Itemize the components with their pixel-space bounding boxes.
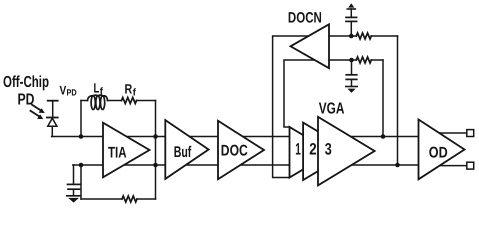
capacitor C3 bottom DOCN filter (346, 75, 357, 80)
capacitor C1 at TIA input (68, 184, 81, 189)
svg-text:2: 2 (309, 141, 316, 159)
wire capacitor C1 to ground (73, 189, 75, 195)
svg-text:Off-Chip: Off-Chip (3, 74, 49, 91)
photodiode D1 (47, 118, 58, 127)
svg-text:DOC: DOC (221, 142, 248, 159)
wire capacitor C3 to ground (351, 79, 353, 86)
op-amp Buf (165, 120, 208, 179)
op-amp VGA stage 2 (303, 123, 351, 180)
junction TIA output bottom (153, 163, 158, 168)
wire DOCN output top to outer loop (273, 36, 316, 178)
output pad bottom (467, 162, 474, 169)
wire top feedback right segment (137, 100, 156, 102)
wire OD output bottom to pad (436, 165, 467, 167)
op-amp VGA stage 3 (318, 117, 375, 186)
light arrow 1 into photodiode (32, 105, 45, 113)
output pad top (467, 130, 474, 137)
wire bottom feedback right segment (137, 198, 156, 200)
op-amp TIA (103, 123, 150, 178)
wire cross connection down to top rail (382, 60, 384, 137)
svg-text:OD: OD (429, 144, 448, 161)
svg-text:PD: PD (67, 87, 78, 97)
supply symbol above C2 (347, 3, 355, 9)
wire top feedback left segment (81, 100, 88, 102)
svg-text:PD: PD (18, 91, 35, 108)
resistor R3 top DOCN filter (356, 33, 371, 39)
wire capacitor stub bottom row (351, 60, 353, 75)
light arrow 2 into photodiode (31, 111, 44, 119)
label Off-Chip PD (3, 74, 49, 108)
op-amp DOCN (291, 24, 330, 68)
wire bottom feedback left segment (81, 198, 122, 200)
label Rf (125, 81, 137, 98)
wire bottom filter to cross connection (371, 59, 383, 61)
junction VGA output bottom rail (395, 163, 400, 168)
junction VGA output top rail (381, 134, 386, 139)
capacitor C2 top DOCN filter (346, 17, 357, 21)
svg-text:1: 1 (295, 141, 301, 159)
resistor Rf (122, 98, 137, 104)
wire top filter to cross connection (371, 35, 397, 37)
wire VPD bar to photodiode cathode (52, 101, 54, 118)
wire capacitor C2 to supply (350, 9, 352, 17)
junction TIA input top (79, 134, 84, 139)
resistor R4 bottom DOCN filter (356, 57, 371, 63)
svg-text:VGA: VGA (319, 101, 345, 118)
junction DOCN filter bottom (349, 58, 354, 63)
supply VPD terminal bar (48, 100, 58, 102)
svg-text:DOCN: DOCN (288, 9, 322, 26)
op-amp DOC (218, 121, 264, 179)
inductor Lf (88, 95, 108, 109)
svg-text:Buf: Buf (174, 144, 192, 161)
wire cross connection down to bottom rail (397, 36, 399, 165)
ground symbol below C3 (346, 87, 357, 93)
wire TIA input tap up to feedback (80, 101, 82, 137)
junction TIA input bottom (79, 163, 84, 168)
svg-text:3: 3 (325, 141, 332, 159)
wire OD output top to pad (436, 132, 467, 134)
wire TIA output vertical node line (155, 101, 157, 200)
wire photodiode anode to top rail (51, 126, 53, 136)
label VPD (60, 83, 78, 97)
ground symbol below C1 (67, 196, 81, 203)
wire DOCN input top row (325, 35, 356, 37)
resistor R2 bottom feedback (122, 196, 137, 202)
svg-text:L: L (94, 80, 100, 95)
wire bottom signal rail (73, 164, 425, 166)
op-amp OD (419, 120, 465, 180)
svg-text:R: R (125, 81, 133, 96)
wire capacitor stub top row (350, 21, 352, 36)
wire between Lf and Rf (108, 100, 122, 102)
op-amp VGA stage 1 (290, 127, 333, 178)
wire TIA lower input tap down (80, 165, 82, 199)
junction DOCN filter top (349, 34, 354, 39)
svg-text:TIA: TIA (108, 145, 127, 162)
wire top signal rail (52, 136, 425, 138)
wire DOCN input bottom row (325, 59, 356, 61)
label Lf (94, 80, 104, 97)
wire DOCN output bottom to inner loop (284, 60, 320, 127)
junction TIA output top (153, 134, 158, 139)
wire bottom rail to input capacitor (73, 165, 75, 184)
